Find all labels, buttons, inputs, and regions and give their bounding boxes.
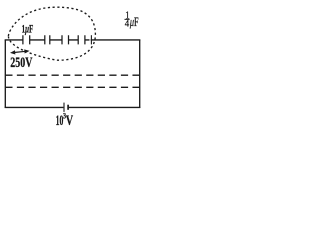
svg-text:μF: μF (129, 15, 139, 29)
capacitor C4 plates (78, 35, 85, 44)
wire left vertical (4, 40, 6, 108)
battery short plate (67, 105, 69, 110)
dotted ellipse loop (8, 7, 95, 60)
wire bottom left segment (5, 106, 64, 108)
svg-text:1μF: 1μF (22, 23, 34, 36)
capacitor C3 plates (62, 35, 69, 44)
dashed plate line 2 (5, 86, 139, 88)
battery long plate (63, 103, 65, 112)
label 1/4 uF: fraction bar (125, 18, 130, 20)
capacitor C1 plates (23, 35, 30, 44)
dashed plate line 1 (5, 74, 139, 76)
capacitor C5 left plate (faint, ellipse crosses at its right) (90, 35, 92, 44)
svg-text:V: V (66, 112, 73, 128)
wire bottom right segment (69, 106, 141, 108)
svg-text:4: 4 (125, 19, 130, 29)
wire top segments between capacitors (5, 39, 141, 41)
capacitor C2 plates (45, 35, 50, 44)
wire right vertical (139, 40, 141, 108)
svg-text:250V: 250V (10, 54, 32, 70)
voltage arrow 250V double-headed (10, 49, 30, 54)
